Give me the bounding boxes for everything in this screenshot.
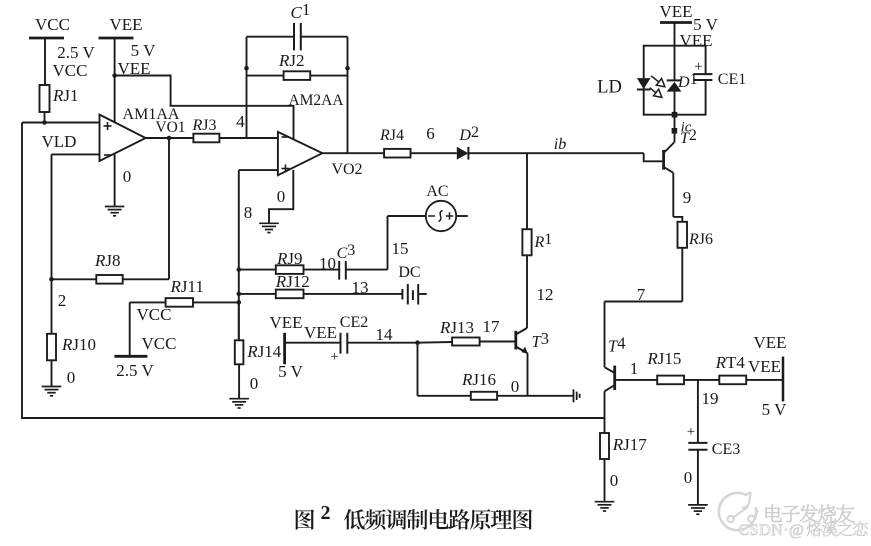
svg-text:C1: C1 <box>291 0 311 22</box>
svg-text:+: + <box>330 349 338 365</box>
watermark logo <box>719 493 758 531</box>
wire VEE bar down through box to D1 <box>674 23 676 81</box>
wire D1 to box bottom <box>674 92 676 115</box>
light arrows LD to D1 <box>650 76 665 98</box>
wire bottom rail (feedback to T4 emitter) <box>21 417 604 419</box>
junction VEE supply node <box>112 73 117 78</box>
wire - input down to node 2 <box>51 154 53 279</box>
svg-text:T3: T3 <box>532 329 549 351</box>
svg-text:13: 13 <box>352 278 369 297</box>
wire RJ3 to AM2AA - input <box>219 137 278 139</box>
wire T4 collector <box>604 302 606 368</box>
wire RJ13 to T3 base <box>480 341 516 343</box>
ground (rotated, RJ16 row) <box>574 389 580 402</box>
svg-text:LD: LD <box>597 78 622 98</box>
wire RJ15 to RT4 <box>684 379 719 381</box>
svg-text:6: 6 <box>426 124 435 143</box>
wire VCC rail vertical <box>129 302 131 356</box>
resistor RJ4 <box>384 149 410 158</box>
junction C1/RJ2 right <box>345 66 350 71</box>
node square (box bottom) <box>672 112 678 118</box>
svg-text:12: 12 <box>537 285 554 304</box>
resistor RJ6 <box>678 222 688 248</box>
wire AM1AA bottom to ground <box>114 154 116 207</box>
svg-text:19: 19 <box>702 389 719 408</box>
svg-text:CE3: CE3 <box>712 441 740 458</box>
wire + input of AM2AA <box>239 169 278 171</box>
svg-text:RJ4: RJ4 <box>379 127 404 144</box>
svg-text:VEE: VEE <box>748 357 781 376</box>
svg-text:0: 0 <box>67 368 76 387</box>
svg-text:10: 10 <box>319 254 336 273</box>
svg-text:RJ6: RJ6 <box>688 231 713 248</box>
op-amp AM2AA <box>278 132 322 175</box>
wire to RJ16 <box>418 395 471 397</box>
svg-text:RT4: RT4 <box>715 353 746 372</box>
AC source <box>426 201 456 231</box>
wire node 2 to RJ8 <box>52 278 97 280</box>
wire feedback right vertical to VO2 <box>347 37 349 154</box>
svg-text:RJ10: RJ10 <box>61 335 96 354</box>
svg-text:DC: DC <box>398 264 420 281</box>
wire RJ12 to DC (node 13) <box>304 293 403 295</box>
resistor RJ12 <box>276 290 304 299</box>
svg-text:VEE: VEE <box>269 313 302 332</box>
node square ic <box>672 128 678 134</box>
wire node 14 down to RJ16 <box>417 343 419 396</box>
ground (CE3) <box>688 505 708 514</box>
capacitor C1 <box>294 23 301 51</box>
wire R1 top to ib wire <box>526 153 528 229</box>
wire up to C1 <box>246 37 248 68</box>
wire RJ2 left lead <box>247 75 284 77</box>
svg-text:5 V: 5 V <box>131 41 156 60</box>
resistor RJ2 <box>284 71 311 80</box>
wire VO2 output <box>322 152 384 154</box>
svg-text:VEE: VEE <box>109 15 142 34</box>
laser diode LD <box>637 78 651 89</box>
power rail VEE right bar <box>782 357 785 402</box>
svg-text:RJ14: RJ14 <box>246 342 282 361</box>
junction RJ12 node <box>237 292 242 297</box>
wire RJ11 to node <box>193 301 239 303</box>
junction node 2 <box>49 277 54 282</box>
svg-text:T4: T4 <box>608 334 625 356</box>
svg-text:VEE: VEE <box>304 323 337 342</box>
wire node 4 up to feedback <box>246 68 248 138</box>
capacitor C3 <box>339 261 346 280</box>
wire ib to T2 <box>527 152 644 154</box>
wire jog to RJ6 <box>673 217 682 222</box>
capacitor CE2 <box>341 333 348 354</box>
wire node 2 to RJ10 <box>51 279 53 334</box>
svg-text:RJ11: RJ11 <box>170 277 204 296</box>
svg-text:VCC: VCC <box>35 15 70 34</box>
resistor R1 <box>522 229 531 255</box>
resistor RJ17 <box>600 433 609 459</box>
wire CE3 to ground <box>697 450 699 505</box>
resistor RJ11 <box>166 298 193 307</box>
wire VEE into AM1AA top <box>114 76 116 123</box>
svg-text:2.5 V: 2.5 V <box>57 43 95 62</box>
DC source battery <box>402 284 418 304</box>
wire VEE supply to AM2AA <box>115 76 294 140</box>
svg-text:CSDN·@: CSDN·@ <box>739 522 805 539</box>
wire box to T2 collector <box>674 115 676 143</box>
ground (RJ10) <box>42 387 62 396</box>
wire AC down to C3 node <box>387 216 389 270</box>
svg-text:CE2: CE2 <box>340 314 368 331</box>
svg-text:0: 0 <box>123 167 132 186</box>
wire node down to RJ14 <box>238 302 240 340</box>
resistor RJ15 <box>657 376 684 385</box>
wire CE2 to node 14 <box>347 342 417 344</box>
photodiode D1 <box>667 79 682 81</box>
wire T3 collector up to R1 <box>526 255 528 328</box>
svg-text:RJ9: RJ9 <box>276 249 303 268</box>
svg-text:ib: ib <box>554 136 566 153</box>
junction VO1 node <box>167 136 172 141</box>
wire + input of AM1AA <box>22 122 100 124</box>
transistor T2 <box>662 150 665 170</box>
wire RJ8 to VO1 vertical <box>123 278 169 280</box>
diode D2 <box>457 147 469 160</box>
watermark text 电子发烧友 <box>766 505 855 523</box>
ground (AM2AA) <box>259 223 279 232</box>
svg-text:17: 17 <box>483 317 501 336</box>
power rail VEE mid bar <box>283 333 286 364</box>
caption 图2 低频调制电路原理图 <box>296 509 532 530</box>
power rail VCC bottom bar <box>114 355 147 358</box>
svg-text:2: 2 <box>58 291 67 310</box>
wire T3 emitter down <box>527 353 529 396</box>
wire to RJ12 <box>239 293 276 295</box>
svg-text:AC: AC <box>426 183 448 200</box>
svg-text:2.5 V: 2.5 V <box>116 361 154 380</box>
wire D2 to R1 junction <box>468 152 527 154</box>
svg-text:7: 7 <box>637 285 646 304</box>
svg-text:8: 8 <box>244 203 253 222</box>
wire DC right stub <box>418 293 427 295</box>
svg-text:9: 9 <box>683 188 692 207</box>
junction RJ1 / + input wire <box>42 120 47 125</box>
LD / D1 / CE1 box <box>644 46 706 115</box>
svg-text:RJ8: RJ8 <box>94 251 121 270</box>
wire AM2AA + input down (node 8 branch) <box>238 170 240 340</box>
wire C3 to AC vertical <box>346 269 388 271</box>
wire node 7 <box>605 301 683 303</box>
wire - input of AM1AA <box>52 153 100 155</box>
wire RJ4 to D2 <box>411 152 457 154</box>
svg-text:RJ17: RJ17 <box>612 435 648 454</box>
junction node 14 <box>415 340 420 345</box>
resistor RJ8 <box>96 275 122 284</box>
svg-text:RJ1: RJ1 <box>52 86 79 105</box>
svg-text:CE1: CE1 <box>718 71 746 88</box>
svg-text:+: + <box>687 424 695 440</box>
svg-text:0: 0 <box>250 374 259 393</box>
wire VCC bar to RJ1 top <box>44 38 46 85</box>
wire AC left lead <box>388 215 426 217</box>
wire left outer vertical (VLD feedback) <box>21 123 23 419</box>
svg-text:RJ13: RJ13 <box>439 318 474 337</box>
capacitor CE1 <box>693 74 712 80</box>
svg-text:5 V: 5 V <box>762 400 787 419</box>
svg-text:0: 0 <box>277 187 286 206</box>
wire VEE bar to CE2 <box>285 342 341 344</box>
wire AC right stub <box>456 215 468 217</box>
wire to RJ9 <box>239 269 276 271</box>
wire RT4 to VEE bar <box>746 379 783 381</box>
wire AM2AA bottom to ground <box>269 170 293 223</box>
svg-text:AM2AA: AM2AA <box>288 92 344 109</box>
svg-text:VCC: VCC <box>142 334 177 353</box>
wire RJ9 to C3 <box>304 269 340 271</box>
wire VCC to RJ11 <box>130 301 166 303</box>
wire RJ16 to rotated ground <box>497 395 573 397</box>
ground (RJ17) <box>595 502 615 511</box>
resistor RT4 <box>719 376 746 385</box>
svg-text:VO2: VO2 <box>331 161 362 178</box>
resistor RJ9 <box>276 265 304 274</box>
svg-text:VEE: VEE <box>659 2 692 21</box>
svg-text:+: + <box>694 59 702 75</box>
svg-text:VEE: VEE <box>753 333 786 352</box>
svg-text:VEE: VEE <box>679 31 712 50</box>
svg-text:VCC: VCC <box>53 61 88 80</box>
ground (RJ14) <box>229 399 249 408</box>
wire T2 emitter down <box>672 173 674 217</box>
resistor RJ14 <box>235 340 244 364</box>
wire T4 base to RJ15 <box>615 379 658 381</box>
svg-text:RJ16: RJ16 <box>461 370 496 389</box>
transistor T4 <box>605 367 615 373</box>
svg-text:RJ3: RJ3 <box>192 117 217 134</box>
svg-text:0: 0 <box>684 468 693 487</box>
wire C1 left lead <box>247 36 295 38</box>
svg-text:VO1: VO1 <box>155 119 185 136</box>
junction RJ11 node <box>237 300 242 305</box>
svg-text:VLD: VLD <box>42 132 77 151</box>
wire RJ14 to ground <box>238 364 240 398</box>
wire RJ6 to node 7 <box>681 248 683 302</box>
svg-text:0: 0 <box>511 377 520 396</box>
svg-text:RJ15: RJ15 <box>646 349 681 368</box>
wire VEE bar down <box>114 38 116 76</box>
wire AM1AA output VO1 <box>146 137 194 139</box>
transistor T3 <box>514 331 517 350</box>
resistor RJ16 <box>471 392 497 400</box>
svg-text:5 V: 5 V <box>278 362 303 381</box>
wire node 19 down to CE3 <box>697 380 699 443</box>
wire RJ17 to ground <box>604 459 606 502</box>
junction C1/RJ2 left <box>244 66 249 71</box>
resistor RJ13 <box>452 338 480 346</box>
svg-text:VCC: VCC <box>137 305 172 324</box>
svg-text:14: 14 <box>376 325 394 344</box>
svg-text:1: 1 <box>630 359 639 378</box>
wire T4 emitter down <box>604 391 606 433</box>
svg-text:2: 2 <box>321 502 331 524</box>
power rail VEE top-right bar <box>660 21 692 24</box>
op-amp AM1AA <box>100 115 146 161</box>
svg-text:RJ2: RJ2 <box>278 51 305 70</box>
svg-text:15: 15 <box>392 239 409 258</box>
svg-text:RJ12: RJ12 <box>275 272 310 291</box>
resistor RJ3 <box>193 134 219 143</box>
svg-text:4: 4 <box>236 112 245 131</box>
wire RJ2 right lead <box>310 75 347 77</box>
wire RJ10 to ground <box>51 360 53 386</box>
capacitor CE3 <box>688 443 707 450</box>
wire RJ1 bottom to + input node <box>44 112 46 123</box>
power rail VCC top-left bar <box>29 37 64 40</box>
ground (AM1AA) <box>105 207 125 216</box>
wire VO1 down to RJ8 <box>168 138 170 279</box>
junction RJ9 node <box>237 267 242 272</box>
wire node 14 to RJ13 <box>418 341 453 344</box>
svg-text:0: 0 <box>610 471 619 490</box>
resistor RJ10 <box>47 334 56 361</box>
resistor RJ1 <box>40 85 50 112</box>
wire C1 right lead <box>301 36 348 38</box>
wire jog into T2 base <box>644 153 663 161</box>
